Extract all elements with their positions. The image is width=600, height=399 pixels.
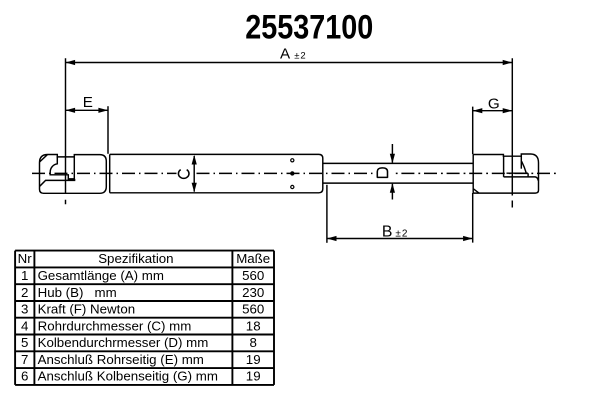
svg-text:2: 2 <box>21 285 28 300</box>
svg-text:B: B <box>382 223 393 240</box>
svg-text:5: 5 <box>21 335 28 350</box>
svg-text:Anschluß Rohrseitig (E) mm: Anschluß Rohrseitig (E) mm <box>38 352 204 367</box>
svg-text:Spezifikation: Spezifikation <box>98 251 173 266</box>
svg-text:7: 7 <box>21 352 28 367</box>
svg-text:560: 560 <box>242 302 264 317</box>
svg-text:8: 8 <box>249 335 256 350</box>
svg-text:230: 230 <box>242 285 264 300</box>
svg-text:19: 19 <box>246 352 261 367</box>
svg-text:±2: ±2 <box>395 228 408 239</box>
svg-text:4: 4 <box>21 318 28 333</box>
svg-text:Maße: Maße <box>236 251 270 266</box>
svg-text:Kraft (F) Newton: Kraft (F) Newton <box>38 302 136 317</box>
svg-text:1: 1 <box>21 268 28 283</box>
svg-text:Gesamtlänge (A) mm: Gesamtlänge (A) mm <box>38 268 164 283</box>
svg-text:E: E <box>83 94 93 111</box>
svg-text:25537100: 25537100 <box>245 9 373 47</box>
svg-text:6: 6 <box>21 369 28 384</box>
svg-text:Anschluß Kolbenseitig (G) mm: Anschluß Kolbenseitig (G) mm <box>38 369 218 384</box>
svg-text:G: G <box>488 95 500 112</box>
svg-text:Nr: Nr <box>18 251 33 266</box>
svg-text:560: 560 <box>242 268 264 283</box>
svg-text:3: 3 <box>21 302 28 317</box>
svg-text:A: A <box>280 46 291 63</box>
svg-text:19: 19 <box>246 369 261 384</box>
svg-text:Rohrdurchmesser (C) mm: Rohrdurchmesser (C) mm <box>38 318 192 333</box>
svg-text:Hub (B) mm: Hub (B) mm <box>38 285 117 300</box>
svg-text:Kolbendurchrmesser (D) mm: Kolbendurchrmesser (D) mm <box>38 335 209 350</box>
svg-text:±2: ±2 <box>294 51 307 62</box>
svg-text:18: 18 <box>246 318 261 333</box>
